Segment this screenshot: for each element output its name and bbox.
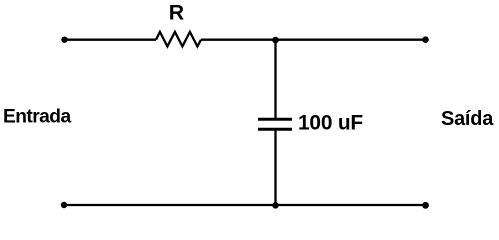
- capacitor C 100 uF (two plates): [258, 119, 292, 129]
- wire: bottom-left, input terminal to bottom junction: [64, 204, 276, 206]
- junction: bottom node dot: [272, 202, 279, 209]
- node: output terminal bottom (dot): [422, 202, 429, 209]
- junction: top node dot: [272, 37, 279, 44]
- wire: top junction to output terminal: [276, 39, 426, 41]
- svg-text:R: R: [169, 1, 184, 25]
- node: input terminal top (dot): [61, 37, 67, 43]
- wire: bottom-right, bottom junction to output terminal: [276, 204, 426, 206]
- wire: resistor to top junction: [201, 39, 276, 41]
- wire: vertical, top junction down to capacitor: [274, 40, 276, 118]
- wire: vertical, capacitor down to bottom junction: [274, 130, 276, 205]
- svg-text:Saída: Saída: [441, 108, 494, 130]
- node: input terminal bottom (dot): [61, 202, 67, 208]
- node: output terminal top (dot): [422, 36, 429, 43]
- svg-text:Entrada: Entrada: [3, 106, 71, 127]
- resistor R: [156, 32, 201, 47]
- wire: top-left, input terminal to resistor: [65, 39, 157, 41]
- svg-text:100 uF: 100 uF: [298, 112, 363, 135]
